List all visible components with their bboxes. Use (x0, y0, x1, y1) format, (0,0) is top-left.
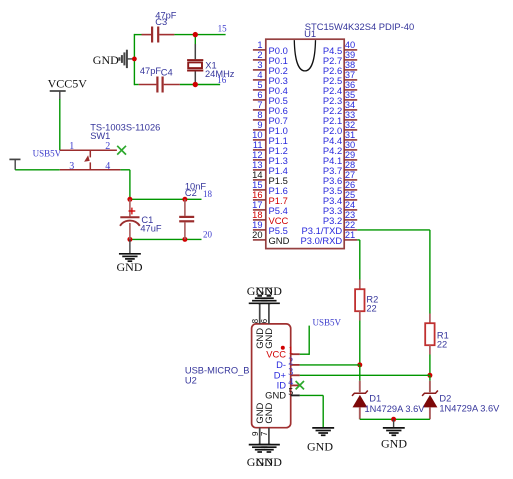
svg-text:3: 3 (69, 161, 74, 172)
svg-text:47pF: 47pF (140, 66, 162, 76)
svg-text:38: 38 (345, 60, 355, 70)
svg-text:29: 29 (345, 150, 355, 160)
svg-text:7: 7 (257, 100, 262, 110)
svg-text:16: 16 (252, 190, 262, 200)
svg-text:VCC: VCC (266, 348, 286, 359)
svg-text:6: 6 (260, 318, 269, 323)
svg-text:2: 2 (288, 356, 293, 367)
svg-text:1: 1 (257, 40, 262, 50)
svg-text:D2: D2 (439, 394, 451, 404)
svg-text:17: 17 (252, 200, 262, 210)
svg-text:39: 39 (345, 50, 355, 60)
svg-text:GND: GND (307, 440, 333, 454)
svg-text:31: 31 (345, 130, 355, 140)
svg-text:GND: GND (256, 284, 282, 298)
svg-text:USB5V: USB5V (33, 149, 62, 159)
svg-text:GND: GND (93, 53, 119, 67)
svg-text:16: 16 (217, 75, 227, 85)
svg-text:U1: U1 (304, 28, 316, 39)
svg-text:10: 10 (252, 130, 262, 140)
svg-text:25: 25 (345, 190, 355, 200)
svg-text:1: 1 (69, 141, 74, 152)
svg-text:9: 9 (257, 120, 262, 130)
svg-text:GND: GND (269, 235, 290, 246)
svg-text:22: 22 (437, 340, 447, 350)
svg-text:SW1: SW1 (90, 131, 110, 141)
svg-text:1N4729A 3.6V: 1N4729A 3.6V (439, 403, 500, 413)
svg-text:34: 34 (345, 100, 355, 110)
svg-text:9: 9 (251, 431, 260, 436)
svg-text:U2: U2 (185, 375, 197, 385)
svg-text:5: 5 (257, 80, 262, 90)
svg-text:21: 21 (345, 230, 355, 240)
svg-text:47uF: 47uF (140, 223, 162, 233)
svg-text:32: 32 (345, 120, 355, 130)
svg-text:USB-MICRO_B: USB-MICRO_B (185, 365, 250, 375)
svg-text:26: 26 (345, 180, 355, 190)
svg-text:5: 5 (288, 387, 293, 398)
svg-text:P3.0/RXD: P3.0/RXD (301, 235, 343, 246)
svg-text:2: 2 (257, 50, 262, 60)
svg-text:2: 2 (105, 141, 110, 152)
svg-text:8: 8 (257, 110, 262, 120)
svg-text:22: 22 (366, 304, 376, 314)
svg-text:GND: GND (265, 389, 286, 400)
svg-text:13: 13 (252, 160, 262, 170)
svg-text:19: 19 (252, 220, 262, 230)
svg-text:GND: GND (381, 437, 407, 451)
svg-text:1N4729A 3.6V: 1N4729A 3.6V (365, 404, 426, 414)
svg-text:C2: C2 (185, 188, 197, 198)
svg-text:GND: GND (117, 260, 143, 274)
svg-text:40: 40 (345, 40, 355, 50)
svg-text:6: 6 (257, 90, 262, 100)
svg-text:22: 22 (345, 220, 355, 230)
svg-text:C4: C4 (161, 68, 173, 78)
svg-text:35: 35 (345, 90, 355, 100)
svg-text:30: 30 (345, 140, 355, 150)
svg-text:GND: GND (263, 328, 274, 349)
svg-text:14: 14 (252, 170, 262, 180)
svg-text:36: 36 (345, 80, 355, 90)
svg-text:12: 12 (252, 150, 262, 160)
svg-text:11: 11 (253, 140, 263, 150)
svg-text:18: 18 (203, 189, 213, 199)
svg-text:20: 20 (203, 229, 213, 239)
svg-text:24: 24 (345, 200, 355, 210)
svg-text:33: 33 (345, 110, 355, 120)
svg-text:4: 4 (105, 161, 110, 172)
svg-text:15: 15 (252, 180, 262, 190)
svg-text:GND: GND (256, 455, 282, 469)
svg-text:28: 28 (345, 160, 355, 170)
svg-text:D1: D1 (369, 394, 381, 404)
svg-text:3: 3 (257, 60, 262, 70)
svg-text:VCC5V: VCC5V (48, 77, 88, 91)
svg-text:18: 18 (252, 210, 262, 220)
svg-text:1: 1 (288, 346, 293, 357)
svg-text:USB5V: USB5V (313, 317, 342, 327)
svg-text:7: 7 (260, 431, 269, 436)
svg-text:20: 20 (252, 230, 262, 240)
svg-text:C3: C3 (155, 17, 167, 27)
svg-text:GND: GND (263, 403, 274, 424)
svg-text:23: 23 (345, 210, 355, 220)
svg-text:8: 8 (251, 318, 260, 323)
svg-text:4: 4 (257, 70, 262, 80)
svg-text:37: 37 (345, 70, 355, 80)
svg-text:15: 15 (218, 24, 228, 34)
svg-text:27: 27 (345, 170, 355, 180)
svg-text:STC15W4K32S4 PDIP-40: STC15W4K32S4 PDIP-40 (305, 21, 414, 32)
